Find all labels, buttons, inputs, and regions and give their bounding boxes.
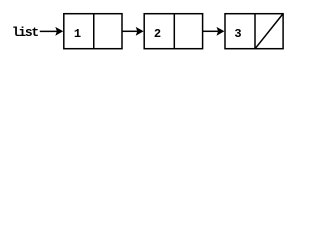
- node 3 divider: [254, 14, 256, 49]
- node 3 box: [225, 14, 283, 49]
- node 2 divider: [173, 14, 175, 49]
- wire: arrow shaft from node 1 to node 2: [122, 30, 138, 32]
- svg-text:3: 3: [234, 27, 241, 41]
- node 1 divider: [93, 14, 95, 49]
- svg-text:list: list: [12, 25, 39, 40]
- arrowhead into node 1: [55, 27, 63, 36]
- wire: arrow shaft from node 2 to node 3: [203, 30, 218, 32]
- svg-text:2: 2: [154, 27, 161, 41]
- arrowhead into node 3: [217, 27, 225, 36]
- wire: arrow shaft from label list to node 1: [40, 30, 58, 32]
- null slash in node 3 pointer cell: [255, 14, 282, 48]
- arrowhead into node 2: [136, 27, 144, 36]
- node 1 box: [64, 14, 122, 49]
- node 2 box: [144, 14, 202, 49]
- svg-text:1: 1: [74, 27, 81, 41]
